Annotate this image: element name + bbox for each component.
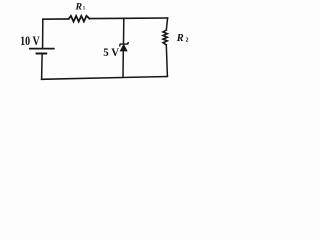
svg-text:2: 2 [186,37,189,43]
svg-text:10 V: 10 V [20,34,40,48]
svg-text:R: R [176,33,184,44]
svg-text:R: R [75,2,83,13]
svg-text:5 V: 5 V [103,45,119,59]
